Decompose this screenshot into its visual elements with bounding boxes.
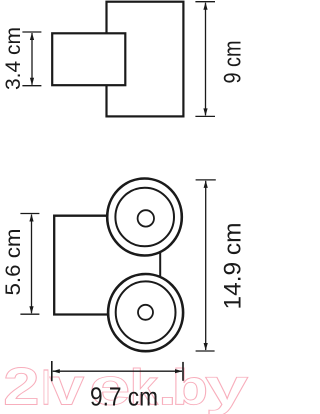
dimension 3.4 cm: bottom arrowhead bbox=[30, 78, 34, 86]
bottom head center circle bbox=[138, 305, 153, 320]
dimension 9.7 cm: right arrowhead bbox=[175, 369, 183, 373]
top head inner circle bbox=[115, 188, 174, 247]
dimension 14.9 cm: dimension line bbox=[205, 181, 207, 350]
dimension 14.9 cm: bottom arrowhead bbox=[204, 343, 208, 351]
svg-text:3.4 cm: 3.4 cm bbox=[1, 27, 25, 90]
top head outer circle bbox=[107, 179, 182, 256]
dimension 3.4 cm: top arrowhead bbox=[30, 33, 34, 41]
dimension 3.4 cm: top extension line bbox=[22, 31, 41, 33]
bottom head outer circle bbox=[108, 274, 183, 351]
dimension 14.9 cm: top extension line bbox=[196, 179, 216, 181]
svg-text:y: y bbox=[205, 358, 249, 414]
dimension 3.4 cm: bottom extension line bbox=[22, 85, 41, 87]
dimension 5.6 cm: dimension line bbox=[31, 215, 33, 314]
dimension 5.6 cm: bottom extension line bbox=[20, 313, 39, 315]
top view: lamp body rectangle bbox=[107, 2, 184, 117]
dimension 9 cm: bottom extension line bbox=[195, 115, 215, 117]
dimension 14.9 cm: top arrowhead bbox=[204, 180, 208, 188]
svg-text:2: 2 bbox=[3, 357, 39, 414]
svg-text:9 cm: 9 cm bbox=[220, 41, 247, 84]
dimension 9.7 cm: dimension line bbox=[53, 370, 182, 372]
svg-text:9.7 cm: 9.7 cm bbox=[90, 381, 158, 411]
dimension 5.6 cm: top arrowhead bbox=[29, 214, 33, 222]
front view: connector between heads bbox=[159, 252, 161, 276]
top view: wall-mount plate rectangle bbox=[52, 33, 125, 85]
top head center circle bbox=[138, 210, 154, 226]
dimension 9 cm: top arrowhead bbox=[203, 2, 207, 10]
dimension 5.6 cm: bottom arrowhead bbox=[29, 306, 33, 314]
bottom head inner circle bbox=[116, 281, 176, 343]
dimension 5.6 cm: top extension line bbox=[20, 213, 39, 215]
svg-text:14.9 cm: 14.9 cm bbox=[220, 223, 247, 310]
dimension 9 cm: dimension line bbox=[205, 3, 207, 116]
dimension 9.7 cm: right extension tick bbox=[182, 362, 184, 381]
dimension 9 cm: bottom arrowhead bbox=[203, 108, 207, 116]
dimension 9.7 cm: left arrowhead bbox=[52, 369, 60, 373]
dimension 3.4 cm: dimension line bbox=[31, 33, 33, 85]
svg-text:5.6 cm: 5.6 cm bbox=[1, 229, 25, 296]
svg-text:b: b bbox=[172, 359, 208, 414]
front view: wall bracket outline bbox=[54, 216, 112, 315]
dimension 9.7 cm: left extension tick bbox=[51, 361, 53, 381]
svg-text:v: v bbox=[50, 358, 85, 414]
dimension 9 cm: top extension line bbox=[195, 1, 215, 3]
dimension 14.9 cm: bottom extension line bbox=[196, 350, 215, 352]
